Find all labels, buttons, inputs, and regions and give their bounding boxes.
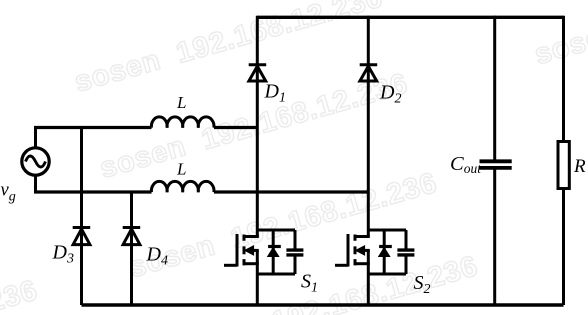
wire upper rail right segment: [214, 126, 257, 129]
S2 source stub: [355, 262, 370, 265]
wire R branch top: [562, 16, 565, 142]
S1 body stub + arrow: [247, 249, 259, 252]
svg-text:sosen 192.168.12.236: sosen 192.168.12.236: [71, 0, 386, 99]
S2 box right / capacitor branch: [405, 230, 408, 274]
svg-text:L: L: [176, 93, 186, 112]
bottom rail: [82, 303, 564, 306]
S1 body diode branch: [272, 230, 275, 274]
S1 snubber box bottom: [257, 273, 295, 276]
wire D1/S1 branch: [256, 16, 259, 237]
S1 box right / capacitor branch: [294, 230, 297, 274]
svg-text:D1: D1: [264, 81, 286, 106]
S1 body diode: [268, 245, 281, 248]
S2 body diode branch: [383, 230, 386, 274]
svg-text:vg: vg: [1, 181, 16, 205]
wire D2/S2 branch: [367, 16, 370, 237]
wire R branch bottom: [562, 189, 565, 306]
svg-text:R: R: [573, 156, 586, 177]
wire D3 branch: [80, 126, 83, 305]
svg-text:Cout: Cout: [450, 153, 482, 176]
transistor Q S1 group: [224, 230, 303, 274]
S2 snubber box top: [368, 229, 406, 232]
S1 parallel capacitor: [286, 250, 303, 255]
wire D4 branch: [130, 191, 133, 306]
wire Cout branch top: [493, 16, 496, 162]
S1 gate bar: [236, 234, 239, 267]
resistor R: [558, 142, 569, 189]
S2 channel segments: [354, 235, 357, 266]
svg-text:sosen 192.168.12.236: sosen 192.168.12.236: [0, 274, 41, 315]
capacitor Cout: [480, 161, 512, 168]
S2 gate bar: [347, 234, 350, 267]
S2 drain stub: [355, 235, 370, 238]
diode D2: [360, 65, 378, 81]
wire upper rail left segment: [34, 126, 152, 129]
wire source top lead: [34, 128, 37, 148]
S2 body diode: [379, 245, 392, 248]
wire lower rail left segment: [34, 190, 152, 193]
ac source vg circle: [22, 148, 49, 175]
transistor Q S2 group: [335, 230, 414, 274]
S1 drain stub: [244, 235, 259, 238]
S2 snubber box bottom: [368, 273, 406, 276]
ac source sine: [26, 156, 46, 167]
S2 parallel capacitor: [397, 250, 414, 255]
diode D3: [73, 228, 91, 245]
svg-text:D3: D3: [52, 242, 74, 267]
wire Cout branch bottom: [493, 168, 496, 305]
wire S1 source segment: [256, 250, 259, 305]
inductor L upper: [151, 117, 214, 128]
S1 source stub: [244, 262, 259, 265]
svg-text:sosen 192.168.12.236: sosen 192.168.12.236: [531, 0, 588, 71]
wire S2 source segment: [367, 250, 370, 305]
svg-text:S1: S1: [301, 271, 318, 296]
S2 gate lead: [335, 264, 348, 267]
S1 gate lead: [224, 264, 237, 267]
top rail: [257, 16, 563, 19]
wire source bottom lead: [34, 175, 37, 192]
S1 channel segments: [243, 235, 246, 266]
S2 body stub + arrow: [358, 249, 370, 252]
svg-text:sosen 192.168.12.236: sosen 192.168.12.236: [126, 167, 441, 284]
diode D4: [123, 228, 141, 245]
wire lower rail right segment: [214, 190, 368, 193]
diode D1: [249, 65, 267, 81]
inductor L lower: [151, 181, 214, 192]
S1 snubber box top: [257, 229, 295, 232]
svg-text:L: L: [176, 159, 186, 178]
